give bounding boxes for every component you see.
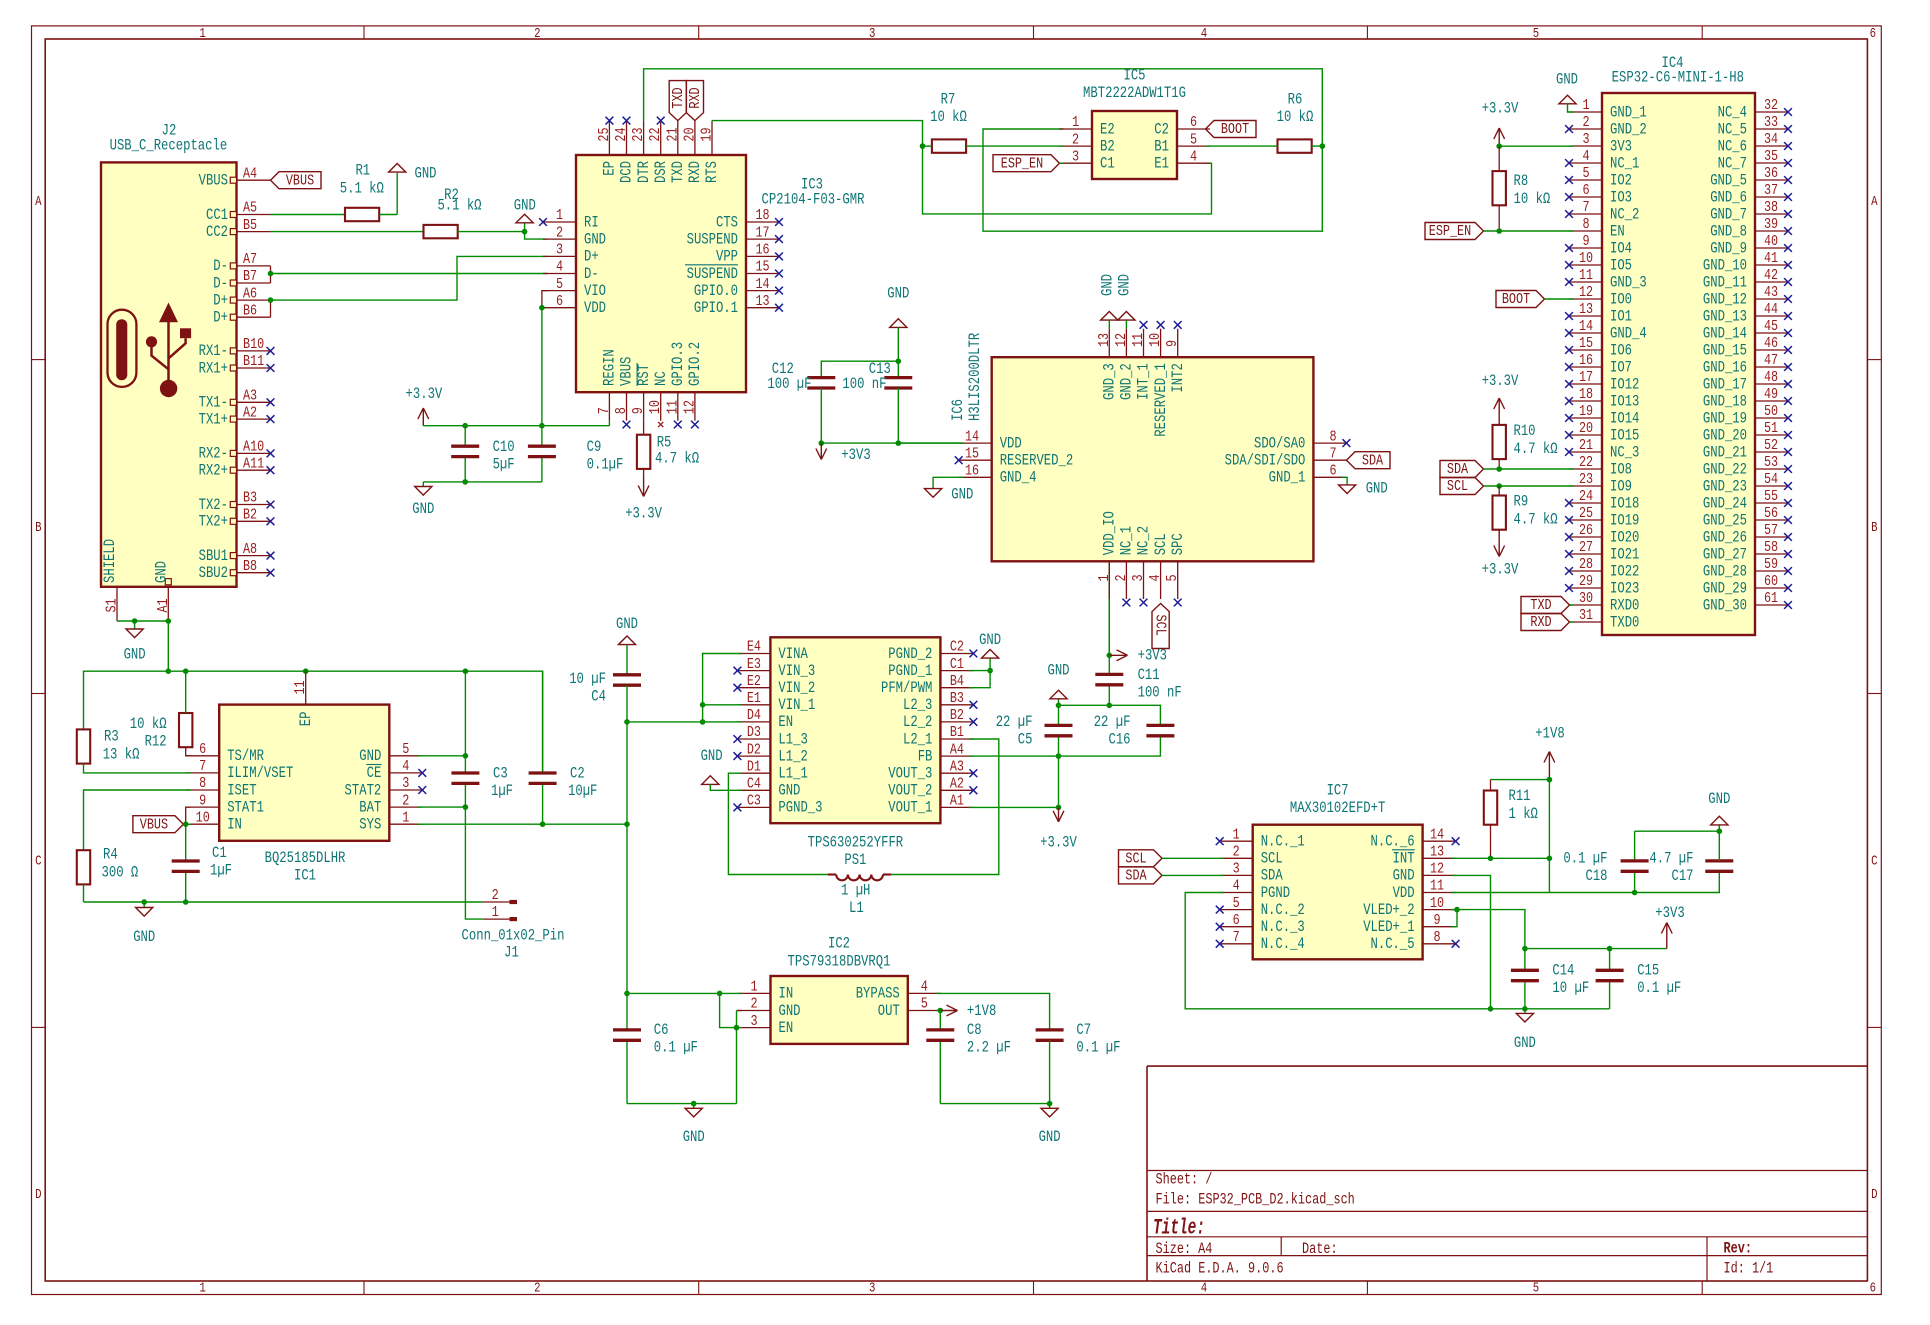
- IC3 pin 22 DSR: [646, 121, 670, 183]
- wire C4 top: [626, 645, 628, 675]
- svg-text:C2: C2: [1154, 120, 1169, 138]
- PS1 pin E2 VIN_2: [737, 672, 815, 697]
- IC4 pin 9 IO4: [1569, 232, 1632, 257]
- GND text PS1 pgnd: [979, 631, 1001, 649]
- svg-text:3: 3: [1582, 130, 1589, 148]
- resistor R10: [1493, 425, 1506, 459]
- junction PGND_1: [987, 668, 993, 674]
- svg-text:C: C: [35, 855, 41, 870]
- junction C5 top: [1056, 703, 1062, 709]
- IC4 pin 15 IO6: [1569, 334, 1632, 359]
- junction IC7 gnd rail: [1488, 1006, 1494, 1012]
- no-connect IC4 24: [1565, 499, 1573, 507]
- svg-text:GND: GND: [887, 285, 909, 303]
- svg-text:GND: GND: [778, 782, 800, 800]
- wire C7 bottom: [1049, 1040, 1051, 1103]
- svg-text:B11: B11: [243, 352, 264, 370]
- svg-text:Sheet: /: Sheet: /: [1156, 1171, 1213, 1189]
- svg-text:IO13: IO13: [1610, 392, 1639, 410]
- svg-text:C4: C4: [591, 688, 606, 706]
- svg-text:GND_9: GND_9: [1710, 239, 1747, 257]
- PS1 labels: [808, 834, 904, 870]
- IC4 pin 53 GND_22: [1703, 453, 1788, 478]
- wire RST to R5: [643, 421, 645, 435]
- svg-text:23: 23: [1579, 470, 1593, 488]
- IC4 pin 13 IO1: [1569, 300, 1632, 325]
- IC4 pin 38 GND_7: [1710, 198, 1788, 223]
- svg-text:0.1 µF: 0.1 µF: [654, 1039, 698, 1057]
- wire IC1 BAT pin: [418, 806, 466, 808]
- svg-text:5.1 kΩ: 5.1 kΩ: [340, 180, 384, 198]
- IC6 pin 5 SPC: [1163, 533, 1187, 599]
- PS1 pin E1 VIN_1: [737, 689, 815, 714]
- svg-text:GND: GND: [1116, 274, 1134, 296]
- svg-text:RXD0: RXD0: [1610, 596, 1639, 614]
- svg-text:RX2+: RX2+: [199, 462, 228, 480]
- no-connect IC7 6: [1216, 923, 1224, 931]
- junction shield gnd: [132, 618, 138, 624]
- wire VINA/VIN_1 jog: [703, 654, 742, 722]
- svg-text:15: 15: [755, 258, 769, 276]
- IC7 pin 12 GND: [1393, 860, 1456, 885]
- svg-text:SHIELD: SHIELD: [101, 539, 119, 583]
- capacitor C11: [1095, 674, 1123, 684]
- GND text C17: [1708, 790, 1730, 808]
- svg-text:IO21: IO21: [1610, 545, 1639, 563]
- no-connect flag IC3 10: [658, 422, 663, 427]
- svg-text:5: 5: [556, 275, 563, 293]
- svg-text:SPC: SPC: [1169, 533, 1187, 555]
- svg-text:4: 4: [921, 978, 928, 996]
- wire SCL to IO9: [1484, 485, 1574, 487]
- ground flag CC2: [516, 214, 533, 223]
- IC IC3 CP2104-F03-GMR: [576, 155, 746, 392]
- IC3 pin 8 VBUS: [612, 357, 636, 421]
- IC4 pin 6 IO3: [1569, 181, 1632, 206]
- power +3.3V arrow R9: [1494, 530, 1505, 557]
- junction IN/C1: [183, 821, 189, 827]
- svg-text:57: 57: [1764, 521, 1778, 539]
- svg-text:4.7 kΩ: 4.7 kΩ: [1514, 511, 1558, 529]
- no-connect IC3 13: [775, 304, 783, 312]
- GND rotated texts IC6: [1099, 274, 1134, 296]
- ground flag IC6 top: [1101, 312, 1118, 321]
- wire R2 to IC3 GND pin: [458, 232, 548, 240]
- PS1 pin C4 GND: [737, 775, 800, 800]
- +3.3V text R10: [1482, 372, 1519, 390]
- svg-text:RESERVED_2: RESERVED_2: [1000, 452, 1073, 470]
- svg-text:FB: FB: [918, 747, 933, 765]
- IC7 labels: [1290, 782, 1386, 818]
- junction R6 right: [1320, 143, 1326, 149]
- svg-text:R1: R1: [355, 161, 370, 179]
- global label SDA at IC7: [1119, 867, 1163, 885]
- svg-text:60: 60: [1764, 572, 1778, 590]
- svg-text:GND_24: GND_24: [1703, 494, 1747, 512]
- svg-text:12: 12: [1430, 860, 1444, 878]
- global label TXD: [669, 81, 687, 121]
- wire C9 column: [541, 426, 543, 482]
- capacitor C1: [172, 861, 200, 871]
- svg-text:EN: EN: [1610, 222, 1625, 240]
- USB icon: [108, 303, 192, 398]
- IC5 pin 1 E2: [1059, 113, 1115, 138]
- svg-text:1µF: 1µF: [491, 782, 513, 800]
- svg-text:A4: A4: [950, 740, 964, 758]
- svg-text:D-: D-: [584, 265, 599, 283]
- svg-text:22: 22: [646, 128, 664, 142]
- IC6 pin 15 RESERVED_2: [959, 444, 1073, 469]
- svg-text:NC_3: NC_3: [1610, 443, 1639, 461]
- resistor R3: [77, 729, 90, 763]
- IC6 pin 11 INT_1: [1129, 329, 1153, 400]
- IC IC6 H3LIS200DLTR: [992, 357, 1314, 561]
- svg-text:B1: B1: [1154, 137, 1169, 155]
- svg-text:10 µF: 10 µF: [1552, 979, 1589, 997]
- svg-text:GND: GND: [584, 230, 606, 248]
- C9 labels: [587, 438, 624, 474]
- PS1 pin D1 L1_1: [737, 757, 807, 782]
- ground flag PS1: [702, 776, 719, 785]
- resistor R6: [1278, 139, 1312, 152]
- power +3.3V arrow R10: [1494, 398, 1505, 425]
- svg-text:17: 17: [755, 223, 769, 241]
- svg-text:17: 17: [1579, 368, 1593, 386]
- wire ESP_EN to EN pin: [1484, 230, 1574, 232]
- svg-text:35: 35: [1764, 147, 1778, 165]
- IC4 pin 30 RXD0: [1569, 589, 1639, 614]
- svg-text:E1: E1: [1154, 155, 1169, 173]
- svg-text:54: 54: [1764, 470, 1778, 488]
- global label SCL at IC4: [1440, 477, 1484, 495]
- svg-text:IO0: IO0: [1610, 290, 1632, 308]
- IC1 pin 5 GND: [359, 740, 422, 765]
- svg-text:R9: R9: [1514, 493, 1529, 511]
- ground IC6 GND_4: [925, 489, 942, 498]
- IC4 pin 39 GND_8: [1710, 215, 1788, 240]
- svg-text:10µF: 10µF: [568, 782, 597, 800]
- svg-text:1 µH: 1 µH: [841, 882, 870, 900]
- no-connect IC4 21: [1565, 448, 1573, 456]
- resistor R9: [1493, 496, 1506, 530]
- IC4 pin 16 IO7: [1569, 351, 1632, 376]
- svg-text:VIN_2: VIN_2: [778, 679, 815, 697]
- IC4 pin 11 GND_3: [1569, 266, 1647, 291]
- svg-text:GND_16: GND_16: [1703, 358, 1747, 376]
- svg-text:D+: D+: [213, 291, 228, 309]
- no-connect IC4 10: [1565, 261, 1573, 269]
- svg-text:ILIM/VSET: ILIM/VSET: [227, 764, 293, 782]
- svg-text:B1: B1: [950, 723, 964, 741]
- svg-text:6: 6: [1870, 27, 1876, 42]
- svg-text:C10: C10: [493, 438, 515, 456]
- wire IC6 VDD: [898, 442, 963, 444]
- svg-text:15: 15: [1579, 334, 1593, 352]
- svg-text:GND: GND: [412, 500, 434, 518]
- svg-text:53: 53: [1764, 453, 1778, 471]
- IC4 pin 24 IO18: [1569, 487, 1639, 512]
- svg-text:C: C: [1871, 855, 1877, 870]
- svg-text:21: 21: [663, 128, 681, 142]
- junction OUT: [938, 1008, 944, 1014]
- svg-text:RXD: RXD: [686, 87, 704, 108]
- IC4 pin 14 GND_4: [1569, 317, 1647, 342]
- ground flag IC4 pin1: [1559, 95, 1576, 104]
- GND text IC6 GND_4: [951, 486, 973, 504]
- wire EN tie: [720, 993, 742, 1027]
- svg-text:C4: C4: [747, 775, 761, 793]
- ground IC6 GND_1: [1339, 485, 1356, 494]
- svg-text:VLED+_1: VLED+_1: [1363, 918, 1414, 936]
- IC7 pin 13 INT: [1392, 843, 1456, 868]
- IC1 pin 8 ISET: [186, 774, 256, 799]
- svg-text:C9: C9: [587, 438, 602, 456]
- svg-text:NC_5: NC_5: [1718, 120, 1747, 138]
- capacitor C16: [1146, 725, 1174, 735]
- svg-text:48: 48: [1764, 368, 1778, 386]
- ground flag C17: [1711, 816, 1728, 825]
- wire BOOT to IO0: [1545, 298, 1574, 300]
- J2 pin B2 TX2+: [199, 506, 271, 531]
- C2 labels: [568, 765, 597, 801]
- power +3V3 arrow C15: [1661, 923, 1672, 949]
- no-connect PS1 A3: [970, 769, 978, 777]
- no-connect IC6 11: [1140, 321, 1148, 329]
- IC1 pin 4 CE: [366, 757, 422, 782]
- IC3 pin 23 DTR: [629, 121, 653, 183]
- GND text near R1: [415, 165, 437, 183]
- junction VLED: [1454, 907, 1460, 913]
- svg-text:GND: GND: [359, 747, 381, 765]
- no-connect IC4 36: [1784, 176, 1792, 184]
- svg-text:9: 9: [1163, 340, 1181, 347]
- svg-text:GND: GND: [1393, 867, 1415, 885]
- svg-text:TS/MR: TS/MR: [227, 747, 264, 765]
- wire DTR net top: [644, 69, 1323, 231]
- IC1 pin 1 SYS: [359, 808, 422, 833]
- junction IN/EN: [717, 991, 723, 997]
- wire IC1 GND pin to C3: [418, 755, 466, 757]
- svg-text:INT2: INT2: [1169, 363, 1187, 392]
- svg-text:A1: A1: [154, 598, 172, 612]
- IC IC7 MAX30102EFD+T: [1253, 825, 1423, 960]
- svg-text:6: 6: [1329, 462, 1336, 480]
- GND text C5: [1048, 662, 1070, 680]
- svg-text:GND_18: GND_18: [1703, 392, 1747, 410]
- svg-text:VIO: VIO: [584, 282, 606, 300]
- svg-text:ESP_EN: ESP_EN: [1429, 222, 1471, 240]
- svg-text:GND: GND: [124, 646, 146, 664]
- no-connect IC4 44: [1784, 312, 1792, 320]
- wire R1 to GND: [379, 173, 397, 215]
- C6 labels: [654, 1021, 698, 1057]
- J2 pin A11 RX2+: [199, 454, 271, 479]
- svg-text:GND: GND: [1556, 71, 1578, 89]
- svg-text:4.7 kΩ: 4.7 kΩ: [1514, 440, 1558, 458]
- junction C13 top: [896, 358, 902, 364]
- wire SDA to IC7: [1162, 874, 1224, 876]
- wire VBUS pin A4: [269, 179, 271, 181]
- junction R9/SCL: [1496, 483, 1502, 489]
- IC4 pin 2 GND_2: [1569, 113, 1647, 138]
- svg-text:6: 6: [1233, 911, 1240, 929]
- C5 labels: [996, 713, 1033, 749]
- svg-text:GND_6: GND_6: [1710, 188, 1747, 206]
- svg-text:RX1+: RX1+: [199, 359, 228, 377]
- svg-text:11: 11: [1579, 266, 1593, 284]
- svg-text:PFM/PWM: PFM/PWM: [881, 679, 932, 697]
- no-connect PS1 C3: [734, 804, 742, 812]
- junction C4/EN: [624, 719, 630, 725]
- svg-text:+3.3V: +3.3V: [406, 385, 443, 403]
- no-connect IC4 18: [1565, 397, 1573, 405]
- junction +1V8: [1547, 777, 1553, 783]
- svg-text:L1_3: L1_3: [778, 730, 807, 748]
- svg-text:VDD: VDD: [1393, 884, 1415, 902]
- svg-text:100 nF: 100 nF: [842, 375, 886, 393]
- IC4 pin 17 IO12: [1569, 368, 1639, 393]
- no-connect IC3 1: [539, 218, 547, 226]
- wire ILIM to R3: [84, 764, 191, 773]
- no-connect IC4 6: [1565, 193, 1573, 201]
- svg-text:+3V3: +3V3: [841, 446, 870, 464]
- svg-text:B6: B6: [243, 301, 257, 319]
- wire VLED to C14 line: [1457, 910, 1525, 949]
- svg-text:RXD: RXD: [1530, 613, 1551, 631]
- junction GND pin C3: [463, 753, 469, 759]
- power +3.3V arrow IC3: [418, 408, 429, 426]
- junction rail C3: [463, 668, 469, 674]
- svg-text:1 kΩ: 1 kΩ: [1509, 805, 1539, 823]
- gnd stem IC6 top: [1125, 320, 1127, 329]
- svg-text:GND_19: GND_19: [1703, 409, 1747, 427]
- svg-text:GND: GND: [1039, 1128, 1061, 1146]
- no-connect IC3 14: [775, 287, 783, 295]
- svg-text:IO12: IO12: [1610, 375, 1639, 393]
- svg-text:C1: C1: [1100, 155, 1115, 173]
- junction SYS/C4 column: [624, 821, 630, 827]
- global label ESP_EN at IC5: [993, 154, 1060, 172]
- wire ISET to R4: [84, 790, 191, 850]
- IC4 pin 43 GND_12: [1703, 283, 1788, 308]
- PS1 pin B1 L2_1: [903, 723, 973, 748]
- global label SCL at IC7: [1119, 850, 1163, 868]
- svg-text:IO7: IO7: [1610, 358, 1632, 376]
- global label RXD at IC4: [1521, 613, 1570, 631]
- no-connect J2 B3: [267, 501, 275, 509]
- PS1 pin A4 FB: [918, 740, 974, 765]
- svg-text:38: 38: [1764, 198, 1778, 216]
- title block: [1147, 1066, 1867, 1281]
- svg-text:ISET: ISET: [227, 781, 256, 799]
- global label VBUS at IC1: [133, 815, 184, 833]
- IC4 pin 42 GND_11: [1703, 266, 1788, 291]
- IC3 pin 11 GPIO.3: [663, 342, 687, 421]
- wire CC2 to R2: [271, 231, 424, 233]
- svg-text:EP: EP: [601, 161, 619, 176]
- svg-text:13: 13: [1579, 300, 1593, 318]
- C8 labels: [967, 1021, 1011, 1057]
- J2 pin A3 TX1-: [199, 387, 271, 412]
- PS1 pin B3 L2_3: [903, 689, 973, 714]
- svg-text:25: 25: [595, 128, 613, 142]
- wire VLED pair: [1451, 910, 1457, 927]
- svg-text:39: 39: [1764, 215, 1778, 233]
- no-connect IC3 8: [623, 421, 631, 429]
- IC6 labels: [949, 332, 984, 421]
- svg-text:IO6: IO6: [1610, 341, 1632, 359]
- svg-text:3: 3: [750, 1012, 757, 1030]
- svg-text:VDD: VDD: [584, 299, 606, 317]
- svg-text:N.C._3: N.C._3: [1261, 918, 1305, 936]
- junction D-: [268, 271, 274, 277]
- capacitor C14: [1511, 970, 1539, 980]
- IC6 pin 6 GND_1: [1269, 462, 1347, 487]
- IC5 pin 3 C1: [1059, 147, 1115, 172]
- IC7 pin 9 VLED+_1: [1363, 911, 1455, 936]
- power +3.3V arrow R5: [638, 478, 649, 497]
- svg-text:2: 2: [402, 791, 409, 809]
- svg-text:1: 1: [402, 808, 409, 826]
- wire D+ to IC3: [271, 256, 548, 300]
- IC4 pin 5 IO2: [1569, 164, 1632, 189]
- svg-text:8: 8: [199, 774, 206, 792]
- no-connect IC4 37: [1784, 193, 1792, 201]
- wire R4 bottom: [83, 884, 85, 902]
- svg-text:GND_25: GND_25: [1703, 511, 1747, 529]
- wire C13 gnd stem: [897, 327, 899, 361]
- svg-text:2: 2: [1233, 843, 1240, 861]
- IC6 pin 3 NC_2: [1129, 526, 1153, 599]
- wire RXD to TXD0: [1570, 621, 1574, 623]
- svg-text:IO20: IO20: [1610, 528, 1639, 546]
- IC3 pin 10 NC: [646, 371, 670, 420]
- top rail BAT/GND net: [84, 671, 543, 773]
- wire S1/A1 to GND: [117, 620, 168, 622]
- wire TS/MR to R12: [186, 747, 191, 756]
- wire GND stem: [524, 223, 526, 232]
- svg-text:0.1 µF: 0.1 µF: [1076, 1039, 1120, 1057]
- PS1 pin C2 PGND_2: [888, 638, 973, 663]
- svg-text:20: 20: [680, 128, 698, 142]
- IC4 pin 41 GND_10: [1703, 249, 1788, 274]
- no-connect IC4 55: [1784, 499, 1792, 507]
- svg-text:5.1 kΩ: 5.1 kΩ: [437, 197, 481, 215]
- svg-text:GND_11: GND_11: [1703, 273, 1747, 291]
- svg-text:VDD_IO: VDD_IO: [1101, 511, 1119, 555]
- no-connect IC3 16: [775, 253, 783, 261]
- capacitor C13: [884, 378, 912, 388]
- svg-text:E2: E2: [1100, 120, 1115, 138]
- C18 labels: [1563, 850, 1607, 886]
- svg-text:IC7: IC7: [1327, 782, 1349, 800]
- no-connect IC6 10: [1157, 321, 1165, 329]
- svg-text:GND: GND: [701, 747, 723, 765]
- IC3 labels: [762, 176, 865, 209]
- svg-text:C11: C11: [1138, 666, 1160, 684]
- svg-text:C16: C16: [1109, 731, 1131, 749]
- +3.3V text R9: [1482, 561, 1519, 579]
- IC4 pin 25 IO19: [1569, 504, 1639, 529]
- PS1 pin B4 PFM/PWM: [881, 672, 973, 697]
- svg-text:2: 2: [750, 995, 757, 1013]
- svg-text:D1: D1: [747, 757, 761, 775]
- svg-text:N.C._4: N.C._4: [1261, 935, 1305, 953]
- wire C12/C13 bottoms to +3V3 rail: [821, 388, 963, 443]
- GND text IC4 pin1: [1556, 71, 1578, 89]
- IC7 pin 7 N.C._4: [1220, 928, 1305, 953]
- IC6 pin 10 RESERVED_1: [1146, 329, 1170, 437]
